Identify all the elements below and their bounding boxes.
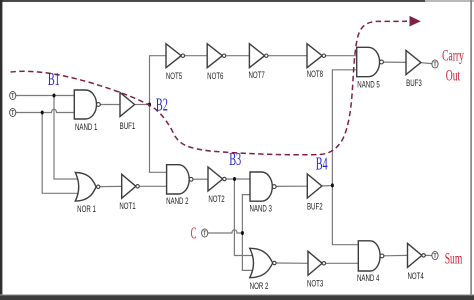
wire net A branch down to NOR 1 top input <box>54 96 79 180</box>
junction node B4 <box>331 183 334 187</box>
wire NAND 4 output to NOT4 <box>384 254 408 256</box>
input pin A <box>10 91 16 99</box>
wire node B3 riser down to NOR 2 top input <box>234 179 252 256</box>
nand-gate NAND 1 body <box>74 90 100 119</box>
input pin C <box>202 229 208 237</box>
buffer BUF1 body <box>120 93 135 117</box>
wire BUF3 output to Carry Out pin <box>421 62 432 65</box>
inverter NOT6 body <box>207 44 226 68</box>
inverter NOT4 body <box>408 243 426 267</box>
buffer BUF3 body <box>406 51 421 75</box>
inverter NOT7 body <box>249 44 268 68</box>
svg-text:BUF1: BUF1 <box>120 121 136 132</box>
wire NOR 2 output to NOT3 <box>276 262 308 264</box>
inverter NOT5 body <box>166 44 185 68</box>
svg-text:NAND 4: NAND 4 <box>357 273 380 284</box>
inverter NOT2 body <box>208 167 226 191</box>
svg-text:NAND 5: NAND 5 <box>357 79 379 90</box>
wire BUF1 output to node B2 <box>135 104 150 106</box>
wire C junction riser up to NAND 3 bottom input <box>242 195 250 233</box>
wire NAND 5 output to BUF3 <box>383 61 406 63</box>
wire node B4 riser up to NAND 5 bottom input <box>332 70 356 186</box>
svg-text:B1: B1 <box>48 70 60 90</box>
dashed path arrowhead <box>410 16 421 27</box>
svg-text:NAND 3: NAND 3 <box>249 203 271 214</box>
buffer BUF2 body <box>307 174 322 198</box>
wire input A to NAND 1 <box>16 95 75 97</box>
svg-text:NOT5: NOT5 <box>166 71 182 82</box>
wire NAND 3 output to BUF2 <box>276 185 307 187</box>
wire input C to junction with hop over B3 riser <box>208 230 243 233</box>
wire NOT7 to NOT8 <box>268 55 307 57</box>
svg-text:B4: B4 <box>316 155 328 175</box>
window border bottom band <box>0 295 474 300</box>
wire NOT2 output through node B3 to NAND 3 top input <box>227 178 251 180</box>
svg-text:NOT4: NOT4 <box>407 271 424 282</box>
wire NOR 1 output to NOT1 <box>100 185 122 187</box>
wire NOT5 to NOT6 <box>185 55 208 57</box>
svg-text:NAND 2: NAND 2 <box>166 196 188 207</box>
inverter NOT3 body <box>308 251 326 275</box>
inverter NOT8 body <box>307 44 326 68</box>
wire BUF2 output to node B4 <box>322 185 333 188</box>
nand-gate NAND 2 body <box>167 165 193 194</box>
dashed critical path curve <box>11 21 408 155</box>
wire NAND 1 output to BUF1 <box>100 104 120 106</box>
wire NOT1 output to NAND 2 bottom input <box>139 185 166 187</box>
junction dot net A <box>53 94 56 98</box>
output pin Sum <box>432 251 438 259</box>
nor-gate NOR 1 body <box>75 173 100 202</box>
wire NAND 2 output to NOT2 <box>193 178 208 180</box>
nor-gate NOR 2 body <box>250 248 276 277</box>
wire node B2 riser down to NAND 2 top input <box>150 105 167 173</box>
nand-gate NAND 4 body <box>358 241 384 271</box>
svg-text:NOT2: NOT2 <box>208 194 224 205</box>
svg-text:NOT7: NOT7 <box>248 70 264 81</box>
window border top <box>0 0 474 2</box>
wire NOT6 to NOT7 <box>226 55 249 57</box>
wire net B branch down to NOR 1 bottom input <box>42 113 79 194</box>
wire node B4 riser down to NAND 4 top input <box>332 186 358 245</box>
window border left <box>0 0 2 298</box>
input pin B <box>10 108 16 116</box>
svg-text:Sum: Sum <box>445 249 463 267</box>
junction node B3 <box>233 177 236 181</box>
inverter NOT1 body <box>122 174 140 198</box>
wire NOT3 output to NAND 4 bottom input <box>326 262 359 264</box>
junction dot net B <box>41 111 44 115</box>
svg-text:NOT8: NOT8 <box>307 69 323 80</box>
wire C junction riser down to NOR 2 bottom input <box>242 233 252 270</box>
svg-text:C: C <box>191 223 197 242</box>
svg-text:NOT1: NOT1 <box>119 201 135 212</box>
wire input B to NAND 1 with hop <box>16 109 75 112</box>
wire NOT4 output to Sum pin <box>425 254 432 256</box>
junction node B2 <box>148 103 151 107</box>
svg-text:NOR 2: NOR 2 <box>250 281 269 292</box>
svg-text:B2: B2 <box>156 96 168 116</box>
window border top right light part <box>425 0 474 2</box>
svg-text:BUF2: BUF2 <box>307 201 323 212</box>
wire NOT8 to NAND 5 top input <box>326 55 357 57</box>
junction dot net C <box>241 231 244 235</box>
svg-text:NOT3: NOT3 <box>307 278 323 289</box>
window border right <box>470 0 472 298</box>
window border bottom light edge <box>0 294 474 295</box>
svg-text:NOR 1: NOR 1 <box>77 204 96 215</box>
svg-text:B3: B3 <box>229 150 241 170</box>
svg-text:Out: Out <box>446 66 461 84</box>
svg-text:BUF3: BUF3 <box>406 78 422 89</box>
nand-gate NAND 3 body <box>250 172 276 201</box>
output pin Carry Out <box>432 60 438 68</box>
svg-text:NOT6: NOT6 <box>207 71 223 82</box>
nand-gate NAND 5 body <box>357 47 384 76</box>
wire node B2 riser up to NOT5 <box>150 56 167 105</box>
svg-text:NAND 1: NAND 1 <box>75 122 97 133</box>
svg-text:Carry: Carry <box>442 46 464 64</box>
